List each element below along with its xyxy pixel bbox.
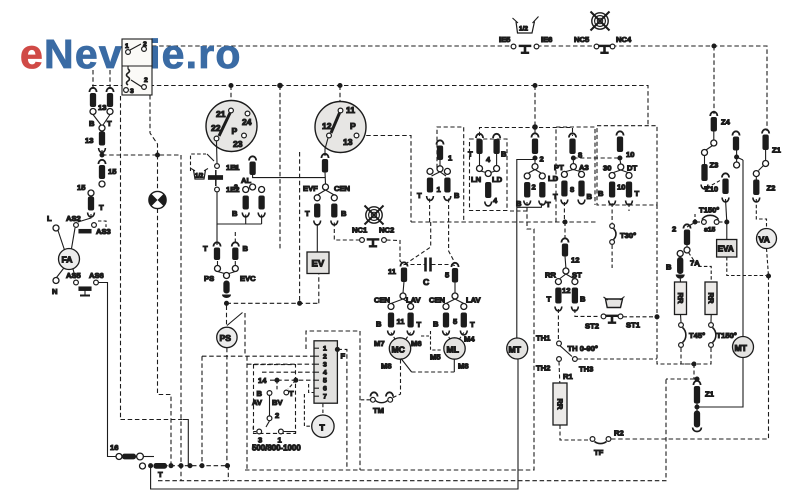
switch ST2/ST1 — [585, 314, 641, 331]
wire Z4 drop — [713, 46, 715, 114]
wire drop P1 — [230, 86, 232, 104]
wire VA down — [767, 249, 769, 277]
wire relay stubs — [92, 70, 94, 90]
svg-text:1: 1 — [125, 43, 129, 50]
pin 1 upper — [436, 140, 453, 172]
wire T link — [304, 394, 311, 426]
pin 2 upper — [531, 133, 543, 169]
pin B pair under AL — [232, 187, 265, 225]
tub ST2 symbol — [604, 297, 625, 308]
pin 8 upper — [569, 133, 582, 169]
wire merge PS/EVC — [218, 272, 225, 274]
fuse T lower — [140, 463, 167, 479]
box 30/DT dashed — [597, 126, 657, 205]
pin Z10 — [705, 173, 729, 202]
switch PS arm — [227, 306, 246, 357]
node center tap — [277, 83, 283, 89]
switch AV/BV — [252, 380, 296, 444]
svg-text:2: 2 — [144, 77, 148, 84]
tub 1/2 symbol — [191, 169, 208, 180]
thermostat T150b — [709, 315, 737, 348]
box PT/A3 dashed — [556, 127, 595, 222]
wire bus y=439 — [611, 276, 769, 439]
pin 10 upper — [616, 131, 634, 170]
pin PS — [203, 242, 221, 283]
pin AL — [241, 156, 256, 190]
pin 4 lower — [471, 171, 503, 206]
pressure switch P2 — [315, 102, 366, 153]
pin B right — [666, 251, 684, 283]
pin 4 T — [468, 134, 483, 172]
switch NC5/NC4 — [574, 35, 632, 53]
lamp — [149, 155, 166, 209]
wire center drop to pin11 — [404, 222, 431, 265]
wire Z1 to Z2 — [759, 166, 764, 171]
pin 2 right — [672, 224, 693, 254]
wire y=356 into F2 — [202, 355, 314, 357]
wire 1E2 down — [217, 193, 262, 225]
wire 30-B to T30 — [611, 203, 613, 223]
wire relay to bus155 — [150, 95, 158, 155]
pin T (EVF) — [305, 195, 321, 225]
pin 2 pair — [516, 170, 551, 210]
pin Z1 mate — [693, 407, 702, 432]
wire vertical x=181 — [180, 155, 182, 481]
wire bottom bus y=465.7 — [156, 466, 228, 481]
motor ML terminals — [429, 296, 482, 335]
wire 8 to 10 — [573, 157, 620, 159]
wire ST1 right — [623, 316, 657, 318]
wire bottom bus y=480.7 — [158, 379, 666, 481]
wire F7 bracket — [309, 384, 314, 393]
pin 13 B — [89, 88, 97, 128]
wire y=380 into F5 — [270, 379, 314, 381]
wire MC hooks — [391, 333, 395, 340]
wire T45/T150 join — [681, 348, 692, 364]
box speed switch dashed — [246, 356, 248, 469]
wire vertical x=657 — [657, 205, 694, 364]
switch NC1/NC2 — [360, 238, 387, 247]
fan NC5/NC4 — [591, 12, 610, 31]
wire s15 to 2pin — [694, 212, 696, 222]
node P1 tap — [229, 84, 233, 88]
node pin2 tap — [533, 84, 537, 88]
wire Z1 to MT2 — [697, 358, 743, 408]
connector F block — [314, 341, 337, 403]
wire TH3 right — [578, 358, 658, 360]
pin 12 upper — [561, 222, 579, 274]
wire PS down — [226, 348, 228, 466]
pin 10 pair 30/DT — [598, 164, 640, 205]
wire split EVF — [317, 190, 325, 195]
wire EVA top — [726, 222, 728, 240]
pin 4 B — [486, 134, 507, 172]
wire to AS2 — [78, 214, 91, 222]
fuse 16 — [110, 443, 154, 460]
motor MC — [374, 338, 422, 371]
wire NC2 to pin 11 — [387, 240, 405, 265]
wire vertical x=202 — [201, 356, 203, 466]
wire MT feed solid — [517, 160, 535, 339]
motor MC terminals — [374, 296, 422, 335]
node P2 tap — [338, 84, 342, 88]
node bus222/12 tap — [563, 220, 567, 224]
wire bus B y=85.5 — [92, 86, 648, 126]
thermostat T — [312, 415, 334, 437]
resistor R1 RR — [553, 362, 573, 426]
pin B (CEN) — [331, 195, 347, 225]
terminal N — [53, 278, 59, 284]
pressure switch P1 — [206, 101, 257, 152]
wire x=535 vertical upper — [509, 210, 527, 212]
wire PT hook drop — [563, 202, 565, 222]
wire Z10 to EVA node — [726, 199, 727, 222]
svg-text:3: 3 — [130, 88, 134, 95]
wire drop P2 — [339, 86, 341, 104]
wire AS6 to column 16 — [99, 283, 117, 457]
pin EVC — [232, 242, 256, 283]
wire T30 down — [611, 245, 613, 268]
motor ML — [430, 335, 475, 371]
fan NC1/NC2 — [365, 206, 384, 225]
pin 8 pair PT/A3 — [553, 163, 593, 204]
capacitor C — [404, 258, 455, 288]
wire drop to pin group feed — [534, 86, 536, 137]
wire CEN-B to NC1 — [334, 223, 359, 241]
switch AS5/AS6 — [66, 271, 104, 296]
motor MT — [507, 338, 528, 359]
pin Z2 — [753, 171, 775, 202]
valve EVA — [717, 240, 737, 258]
wire MT2 up — [742, 160, 744, 337]
box group1 dashed — [437, 127, 464, 221]
wire y=155 bus — [102, 154, 181, 156]
wire RR3 to TF — [560, 425, 589, 440]
wire MC arm — [401, 359, 412, 373]
wire DT-T stub — [628, 203, 630, 211]
box group4 dashed — [470, 139, 508, 211]
wire P1-22 to 1E1 — [216, 142, 219, 164]
pin EVF top — [321, 154, 328, 190]
wire to Z1 node — [694, 364, 697, 379]
wire Z3 to Z10 — [705, 180, 722, 189]
pin 13 T — [98, 88, 114, 128]
wire pins feed y=127.5 — [480, 128, 573, 137]
wire P2-13 link — [359, 136, 411, 223]
wire cross link — [421, 331, 441, 350]
node F1 — [335, 347, 339, 351]
node bus465 dots — [149, 464, 153, 468]
wire to EV — [227, 302, 319, 304]
wire center drop x=280 — [279, 86, 281, 251]
switch AS2/AS3 — [47, 214, 111, 236]
pressostat PS — [217, 327, 237, 347]
wire merge to 13 pin — [93, 115, 101, 126]
relay IS box — [122, 39, 152, 95]
thermostat TH — [536, 334, 598, 374]
wire group1 B drop — [449, 199, 455, 264]
pin 12 pair RR/ST — [545, 271, 586, 311]
pin Z4 — [710, 112, 730, 146]
wire TM left — [360, 399, 370, 401]
node PS junction — [225, 301, 229, 305]
pin Z3 — [701, 150, 718, 189]
wire vertical x=299.6 — [299, 152, 301, 303]
thermostat T150 s15 — [699, 206, 719, 234]
wire MC to TM — [392, 360, 401, 399]
box F outer dashed — [306, 331, 360, 349]
node s15 left — [693, 220, 697, 224]
resistor RR2 — [705, 282, 717, 315]
wire F1 drop — [337, 349, 347, 470]
wire bus y=222 — [411, 221, 597, 223]
wire vertical x=157.5 lamp line — [158, 209, 172, 466]
wire bottom box bus y=470 — [245, 202, 534, 470]
tub 1/2 above IE5 — [513, 17, 539, 34]
resistor RR1 — [675, 282, 687, 315]
wire ML hooks — [446, 333, 450, 340]
fuse TF — [590, 429, 624, 458]
wire Z4 to Z3 — [706, 146, 713, 151]
meter VA — [757, 229, 777, 249]
switch 1E1/1E2 — [191, 154, 241, 194]
wire AL to EVF — [253, 175, 326, 178]
breaker FA — [57, 228, 80, 279]
node bus A / Z4 tap — [712, 44, 716, 48]
wire to PS/EVC pins — [216, 224, 218, 245]
wire ST-B to ST2 — [575, 309, 600, 316]
wire solid corner to bus — [183, 420, 188, 466]
pin 15 lower — [77, 183, 104, 217]
wire y=364 into F3 — [247, 363, 314, 365]
wire y=372 into F4 — [262, 371, 314, 373]
wire EVA bottom — [727, 257, 766, 276]
pin 13 lower — [85, 125, 105, 155]
pin group 1 T/B — [417, 168, 460, 200]
wire EV to T pin — [316, 224, 318, 252]
wire vertical x=120.5 — [120, 96, 122, 420]
wire y=419.5 link — [121, 419, 184, 421]
switch IE5/IE6 — [499, 35, 552, 53]
valve EV — [307, 252, 329, 274]
node lamp top — [156, 153, 160, 157]
wire solid return y=489 — [151, 360, 518, 490]
thermostat T30 — [610, 224, 636, 245]
pin 736 — [732, 131, 743, 168]
wire P2-12 down — [325, 138, 328, 156]
box inner speed switch — [254, 365, 296, 434]
tachometer TM — [370, 392, 393, 415]
thermostat T45 — [679, 315, 706, 348]
pin Z1 — [693, 381, 714, 409]
pin 5 (ML) — [445, 263, 459, 299]
wire bus A y=46 — [152, 45, 513, 47]
wire Z2 to VA — [756, 199, 766, 229]
pin 15 upper — [98, 160, 117, 187]
wire group1 T drop — [429, 199, 431, 223]
motor MT2 — [733, 337, 754, 358]
pin Z1 top right — [762, 129, 782, 166]
wire MC-ML bottom — [412, 371, 455, 373]
pin common below PS/EVC — [223, 273, 231, 298]
wire RR-T hook to TH1 — [557, 309, 559, 341]
node x102 — [100, 153, 104, 157]
pin 11 (MC) — [388, 262, 408, 299]
